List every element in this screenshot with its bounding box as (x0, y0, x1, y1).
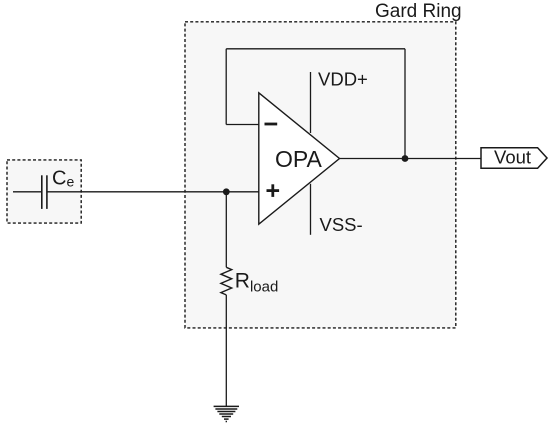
Vout flag (481, 148, 547, 168)
guard ring dashed box (185, 22, 456, 328)
wire: junction down to resistor (225, 192, 227, 267)
svg-text:VDD+: VDD+ (318, 68, 368, 89)
wire: feedback left vertical (225, 49, 227, 125)
resistor R_load zigzag (221, 267, 232, 295)
non-inverting input plus sign (267, 189, 280, 192)
capacitor Ce dashed box (7, 160, 81, 223)
wire: input left lead to capacitor (13, 191, 42, 193)
wire: inverting input to feedback (226, 124, 259, 126)
svg-text:OPA: OPA (275, 146, 323, 172)
svg-text:VSS-: VSS- (320, 214, 363, 235)
wire: capacitor to non-inverting input (47, 191, 260, 193)
VDD+ supply pin (310, 72, 312, 133)
VSS- supply pin (310, 184, 312, 235)
wire: output (340, 158, 482, 160)
wire: feedback top horizontal (226, 48, 405, 50)
inverting input minus sign (265, 123, 278, 126)
output node dot (402, 155, 409, 162)
capacitor C_e plates (41, 175, 43, 209)
wire: resistor to ground (225, 295, 227, 407)
node junction dot (223, 188, 230, 195)
op-amp U1 triangle (259, 93, 340, 224)
wire: feedback right vertical down to output node (404, 49, 406, 159)
ground (214, 406, 239, 421)
svg-text:Gard Ring: Gard Ring (375, 1, 462, 22)
svg-text:Vout: Vout (494, 147, 531, 168)
